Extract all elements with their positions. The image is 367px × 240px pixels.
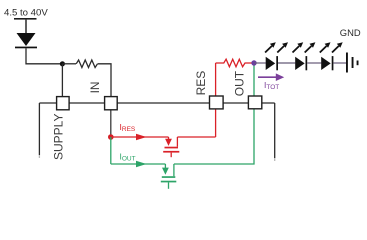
green wire Q2 to OUT pin [174, 110, 254, 165]
red wire I_RES [111, 136, 169, 138]
wire bus to resistor [62, 63, 76, 65]
svg-text:IOUT: IOUT [120, 152, 136, 163]
LED D4 [321, 56, 333, 70]
emission arrow 2 [277, 46, 284, 53]
LED D3 [295, 56, 307, 70]
wire [25, 20, 27, 33]
ground [346, 53, 359, 73]
wire diode to bus [26, 48, 62, 64]
transistor Q1 (red mirror FET) [163, 137, 179, 157]
arrow I_TOT [258, 73, 284, 81]
wire junction to SUPPLY pin [61, 64, 63, 96]
node LED junction (purple dot) [251, 60, 256, 65]
svg-text:4.5 to 40V: 4.5 to 40V [4, 8, 48, 19]
pin box OUT [248, 96, 261, 109]
red wire Q1 to RES pin [177, 136, 215, 138]
pin box SUPPLY [57, 97, 70, 110]
emission arrow 5 [320, 46, 327, 53]
svg-text:GND: GND [340, 27, 361, 38]
IC right edge [274, 103, 276, 158]
green wire I_OUT [111, 163, 166, 165]
LED emission arrows [265, 42, 343, 52]
wire LED2-LED3 [307, 62, 321, 64]
LED D2 [266, 56, 278, 70]
emission arrow 4 [305, 46, 312, 53]
svg-text:IRES: IRES [120, 122, 136, 133]
arrow I_OUT [136, 161, 147, 168]
pin box IN [105, 97, 118, 110]
wire LED1-LED2 [278, 62, 295, 64]
svg-text:IN: IN [88, 81, 102, 93]
wire resistor to IN pin [98, 64, 111, 96]
red wire RES pin down [215, 110, 217, 138]
arrow I_RES [136, 134, 147, 141]
IC left edge [38, 103, 40, 155]
resistor R1 [76, 60, 97, 68]
green wire node down [110, 137, 112, 164]
node junction dot [60, 61, 65, 66]
pin box RES [210, 96, 224, 109]
diode D1 [15, 33, 37, 48]
svg-text:OUT: OUT [233, 70, 247, 96]
wire LED3 to ground [333, 62, 346, 64]
node red dot [108, 134, 114, 140]
emission arrow 6 [332, 46, 339, 53]
emission arrow 1 [265, 46, 272, 53]
svg-text:RES: RES [194, 71, 208, 96]
IC top edge [39, 102, 274, 104]
red vertical RES pin to resistor [215, 63, 217, 96]
resistor R2 (red) [216, 59, 254, 66]
emission arrow 3 [293, 46, 300, 53]
supply terminal bar [14, 18, 37, 20]
wire dot to LED1 (purple) [254, 62, 266, 64]
wire IN pin to node (black) [110, 111, 112, 138]
svg-text:SUPPLY: SUPPLY [51, 114, 65, 160]
svg-text:ITOT: ITOT [264, 80, 279, 91]
green wire OUT pin to LED node [253, 63, 255, 96]
transistor Q2 (green mirror FET) [161, 164, 177, 189]
